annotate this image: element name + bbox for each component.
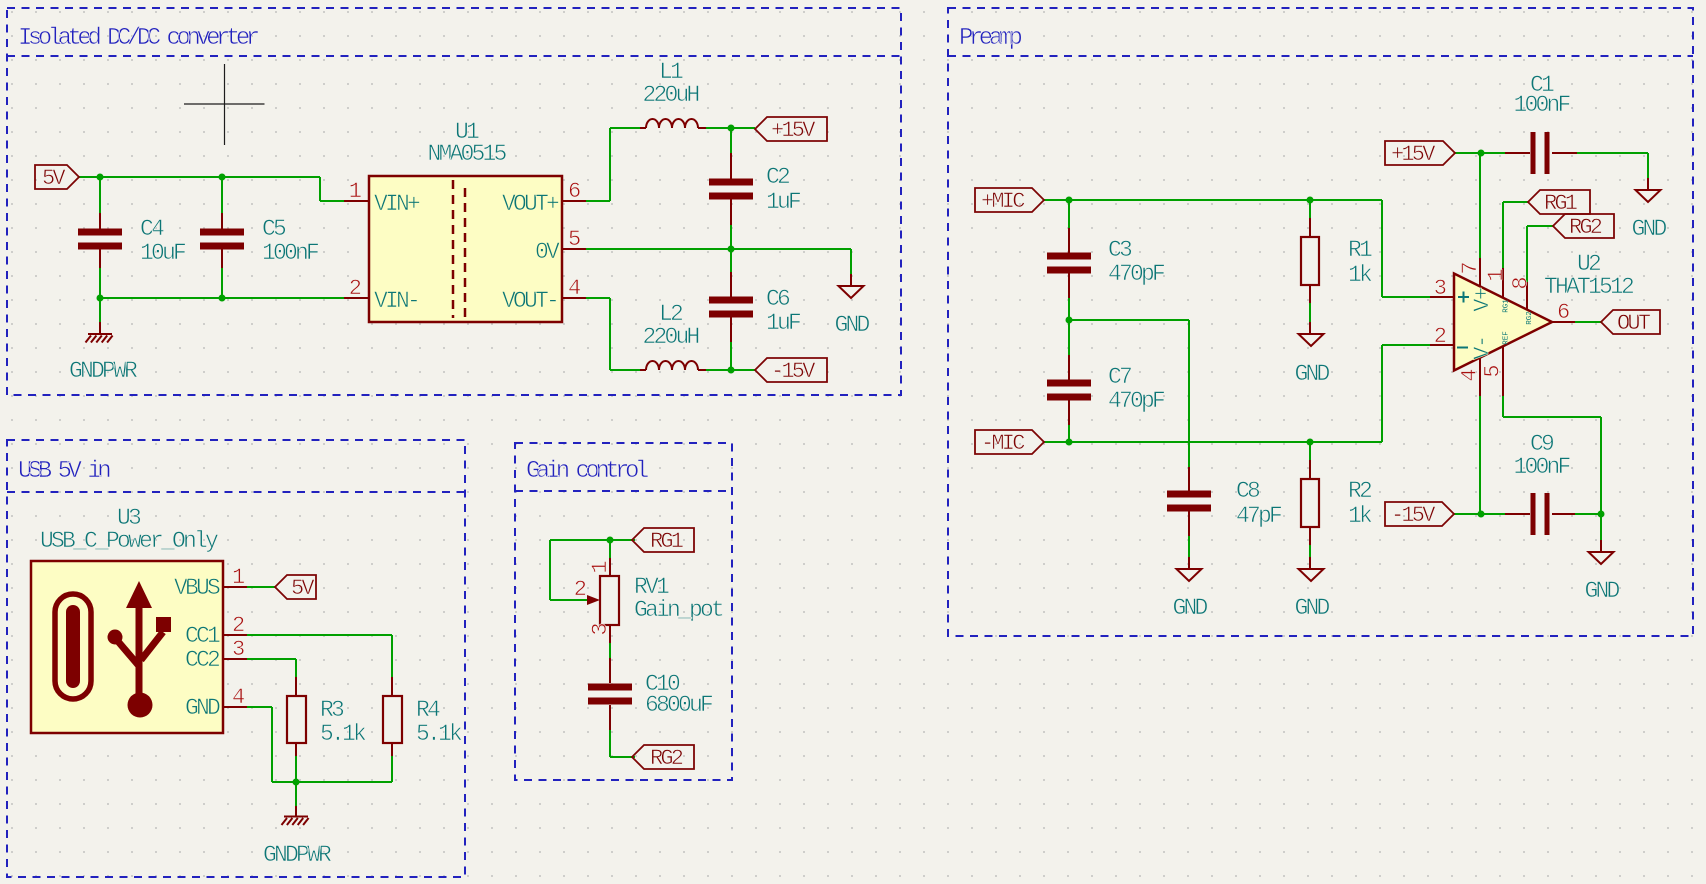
svg-text:6: 6 xyxy=(1557,300,1570,325)
svg-text:R2: R2 xyxy=(1348,478,1372,504)
svg-text:Isolated DC/DC converter: Isolated DC/DC converter xyxy=(18,25,259,52)
svg-text:10uF: 10uF xyxy=(140,240,186,266)
svg-text:-15V: -15V xyxy=(771,359,816,384)
svg-text:C4: C4 xyxy=(140,216,164,242)
svg-text:C2: C2 xyxy=(766,164,790,190)
svg-text:5: 5 xyxy=(568,227,581,252)
svg-text:R1: R1 xyxy=(1348,237,1372,263)
svg-text:220uH: 220uH xyxy=(642,324,698,350)
svg-text:RG1: RG1 xyxy=(650,529,684,554)
svg-text:100nF: 100nF xyxy=(1513,454,1570,480)
svg-text:V+: V+ xyxy=(1470,288,1495,312)
svg-text:0V: 0V xyxy=(535,239,560,265)
svg-text:3: 3 xyxy=(1434,276,1447,301)
svg-text:Preamp: Preamp xyxy=(959,25,1022,52)
svg-text:C3: C3 xyxy=(1108,237,1132,263)
svg-text:GND: GND xyxy=(834,312,869,338)
svg-text:GND: GND xyxy=(1294,595,1329,621)
svg-text:1k: 1k xyxy=(1348,503,1372,529)
svg-text:1: 1 xyxy=(588,560,613,573)
svg-text:USB_C_Power_Only: USB_C_Power_Only xyxy=(40,528,219,554)
svg-text:RG2: RG2 xyxy=(1526,311,1534,325)
svg-text:-MIC: -MIC xyxy=(981,431,1025,456)
svg-text:R3: R3 xyxy=(320,697,344,723)
svg-text:1uF: 1uF xyxy=(766,189,801,215)
svg-text:GNDPWR: GNDPWR xyxy=(69,358,138,384)
svg-text:470pF: 470pF xyxy=(1108,388,1165,414)
svg-text:CC1: CC1 xyxy=(185,623,220,649)
svg-text:5: 5 xyxy=(1481,364,1506,377)
svg-text:GND: GND xyxy=(1294,361,1329,387)
svg-text:GND: GND xyxy=(185,695,220,721)
svg-text:C7: C7 xyxy=(1108,364,1131,390)
svg-text:5V: 5V xyxy=(42,166,66,191)
svg-text:100nF: 100nF xyxy=(1513,92,1570,118)
svg-text:NMA0515: NMA0515 xyxy=(427,141,506,167)
svg-text:GND: GND xyxy=(1584,578,1619,604)
svg-text:2: 2 xyxy=(232,613,245,638)
svg-text:RG1: RG1 xyxy=(1503,299,1511,313)
svg-text:RG2: RG2 xyxy=(1569,215,1602,240)
svg-text:1: 1 xyxy=(349,179,362,204)
svg-text:2: 2 xyxy=(574,577,587,602)
svg-text:+15V: +15V xyxy=(771,118,816,143)
svg-text:2: 2 xyxy=(349,276,362,301)
svg-text:OUT: OUT xyxy=(1617,311,1651,336)
svg-text:1: 1 xyxy=(1484,268,1509,281)
svg-text:5V: 5V xyxy=(291,576,315,601)
svg-text:2: 2 xyxy=(1434,324,1447,349)
svg-text:GND: GND xyxy=(1631,216,1666,242)
svg-text:470pF: 470pF xyxy=(1108,261,1165,287)
svg-text:Gain_pot: Gain_pot xyxy=(634,597,723,623)
svg-text:47pF: 47pF xyxy=(1236,503,1282,529)
svg-text:1uF: 1uF xyxy=(766,310,801,336)
svg-text:GND: GND xyxy=(1172,595,1207,621)
svg-text:100nF: 100nF xyxy=(262,240,319,266)
svg-text:1: 1 xyxy=(232,565,245,590)
svg-text:3: 3 xyxy=(232,637,245,662)
svg-text:VIN+: VIN+ xyxy=(374,191,420,217)
svg-text:8: 8 xyxy=(1509,276,1534,289)
svg-text:C6: C6 xyxy=(766,286,790,312)
svg-text:V-: V- xyxy=(1470,336,1495,359)
svg-text:6: 6 xyxy=(568,179,581,204)
svg-text:GNDPWR: GNDPWR xyxy=(263,842,332,868)
svg-text:3: 3 xyxy=(588,622,613,635)
svg-text:6800uF: 6800uF xyxy=(645,692,713,718)
svg-text:VOUT+: VOUT+ xyxy=(502,191,559,217)
svg-text:1k: 1k xyxy=(1348,262,1372,288)
svg-text:RG2: RG2 xyxy=(650,746,683,771)
svg-text:USB 5V in: USB 5V in xyxy=(18,458,110,485)
svg-text:4: 4 xyxy=(568,276,581,301)
svg-text:-15V: -15V xyxy=(1391,503,1436,528)
svg-text:+15V: +15V xyxy=(1391,142,1436,167)
svg-text:REF: REF xyxy=(1503,331,1511,345)
svg-text:+MIC: +MIC xyxy=(981,189,1025,214)
svg-text:220uH: 220uH xyxy=(642,82,698,108)
svg-text:VOUT-: VOUT- xyxy=(502,288,557,314)
svg-text:4: 4 xyxy=(1458,368,1483,381)
svg-text:4: 4 xyxy=(232,685,245,710)
svg-text:Gain control: Gain control xyxy=(526,458,649,485)
svg-text:VBUS: VBUS xyxy=(174,575,220,601)
svg-text:RG1: RG1 xyxy=(1544,191,1578,216)
svg-text:5.1k: 5.1k xyxy=(416,721,462,747)
svg-text:5.1k: 5.1k xyxy=(320,721,366,747)
svg-text:7: 7 xyxy=(1458,261,1483,274)
svg-text:CC2: CC2 xyxy=(185,647,220,673)
svg-text:THAT1512: THAT1512 xyxy=(1544,274,1634,300)
svg-text:R4: R4 xyxy=(416,697,440,723)
svg-text:VIN-: VIN- xyxy=(374,288,418,314)
svg-text:C8: C8 xyxy=(1236,478,1260,504)
svg-text:C5: C5 xyxy=(262,216,286,242)
